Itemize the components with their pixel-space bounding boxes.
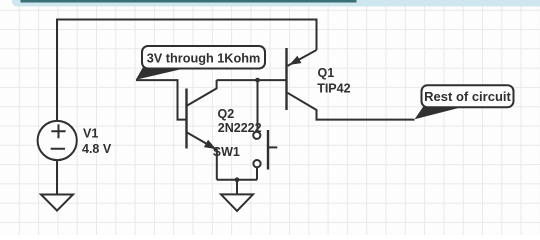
svg-text:2N2222: 2N2222 — [218, 121, 262, 135]
svg-text:3V through 1Kohm: 3V through 1Kohm — [147, 52, 260, 66]
svg-text:TIP42: TIP42 — [317, 81, 350, 95]
svg-text:4.8 V: 4.8 V — [82, 142, 112, 156]
svg-text:V1: V1 — [83, 127, 98, 141]
svg-text:Rest of circuit: Rest of circuit — [424, 89, 511, 104]
svg-text:Q2: Q2 — [218, 107, 235, 121]
svg-text:SW1: SW1 — [213, 145, 240, 159]
svg-text:Q1: Q1 — [318, 66, 335, 80]
